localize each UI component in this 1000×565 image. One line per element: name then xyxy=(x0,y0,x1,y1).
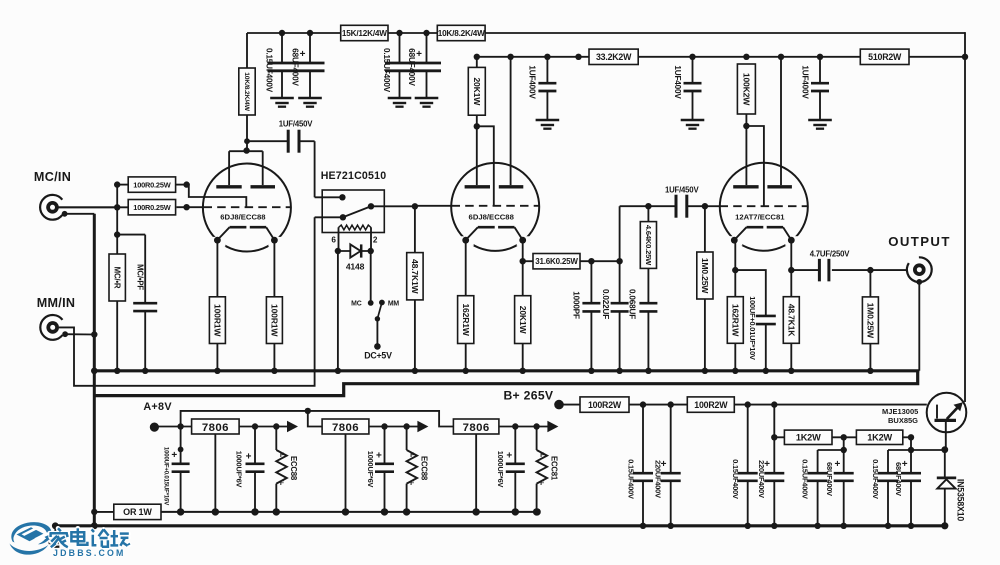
svg-text:100UF+0.01UF*10V: 100UF+0.01UF*10V xyxy=(748,296,757,360)
svg-text:IN5358X10: IN5358X10 xyxy=(956,479,966,522)
svg-text:20K1W: 20K1W xyxy=(472,77,482,106)
svg-text:MC/IN: MC/IN xyxy=(34,170,71,184)
svg-text:68UF400V: 68UF400V xyxy=(407,48,416,86)
svg-text:0.15UF400V: 0.15UF400V xyxy=(731,459,740,499)
svg-text:15K/12K/4W: 15K/12K/4W xyxy=(342,29,387,38)
svg-text:JDBBS.COM: JDBBS.COM xyxy=(53,548,126,558)
svg-text:0.15UF400V: 0.15UF400V xyxy=(626,459,635,499)
svg-text:0.15UF400V: 0.15UF400V xyxy=(801,459,810,499)
svg-text:ECC81: ECC81 xyxy=(550,456,559,481)
svg-text:6DJ8/ECC88: 6DJ8/ECC88 xyxy=(469,213,515,222)
svg-text:0.022UF: 0.022UF xyxy=(601,289,610,319)
svg-text:100R1W: 100R1W xyxy=(270,304,280,337)
svg-text:+: + xyxy=(834,459,840,470)
svg-text:0.15UF400V: 0.15UF400V xyxy=(871,459,880,499)
svg-text:+: + xyxy=(661,459,667,470)
svg-text:F: F xyxy=(540,452,544,459)
svg-text:MC/•PF: MC/•PF xyxy=(136,264,145,290)
svg-text:6DJ8/ECC88: 6DJ8/ECC88 xyxy=(220,213,266,222)
svg-text:10K/8.2K/4W: 10K/8.2K/4W xyxy=(243,72,250,111)
svg-text:1K2W: 1K2W xyxy=(796,433,821,443)
svg-text:F: F xyxy=(540,480,544,487)
svg-text:+: + xyxy=(764,459,770,470)
svg-text:162R1W: 162R1W xyxy=(461,303,471,336)
svg-text:HE721C0510: HE721C0510 xyxy=(321,170,387,182)
svg-text:1K2W: 1K2W xyxy=(867,433,892,443)
svg-text:100K2W: 100K2W xyxy=(742,73,752,106)
svg-text:1000UF*6V: 1000UF*6V xyxy=(496,451,505,488)
svg-text:1UF400V: 1UF400V xyxy=(673,65,682,99)
svg-text:31.6K0.25W: 31.6K0.25W xyxy=(535,257,578,266)
svg-text:+: + xyxy=(506,450,512,461)
svg-text:12AT7/ECC81: 12AT7/ECC81 xyxy=(735,213,785,222)
svg-text:510R2W: 510R2W xyxy=(868,52,902,62)
svg-text:4148: 4148 xyxy=(346,262,365,272)
svg-text:1UF/450V: 1UF/450V xyxy=(279,120,314,129)
svg-text:100R0.25W: 100R0.25W xyxy=(133,203,170,212)
svg-text:0.068UF: 0.068UF xyxy=(627,289,636,319)
svg-text:6: 6 xyxy=(331,236,336,245)
svg-text:MM: MM xyxy=(388,301,400,308)
svg-text:10K/8.2K/4W: 10K/8.2K/4W xyxy=(438,29,485,38)
svg-text:OUTPUT: OUTPUT xyxy=(888,234,951,249)
svg-text:68UF400V: 68UF400V xyxy=(291,48,300,86)
svg-text:33.2K2W: 33.2K2W xyxy=(596,52,632,62)
svg-text:+: + xyxy=(300,49,306,60)
svg-text:100R0.25W: 100R0.25W xyxy=(133,180,170,189)
svg-text:F: F xyxy=(280,452,284,459)
svg-text:MJE13005: MJE13005 xyxy=(882,407,918,416)
svg-text:MM/IN: MM/IN xyxy=(37,296,76,310)
svg-text:1M0.25W: 1M0.25W xyxy=(866,303,876,339)
svg-text:+: + xyxy=(902,459,908,470)
svg-text:0.15UF400V: 0.15UF400V xyxy=(264,48,273,93)
svg-text:100R2W: 100R2W xyxy=(694,400,728,410)
svg-text:68UF400V: 68UF400V xyxy=(825,462,834,496)
svg-text:+: + xyxy=(416,49,422,60)
svg-text:1UF400V: 1UF400V xyxy=(528,65,537,99)
svg-text:4.7UF/250V: 4.7UF/250V xyxy=(810,249,851,258)
svg-text:1UF/450V: 1UF/450V xyxy=(665,186,700,195)
svg-text:7806: 7806 xyxy=(332,422,359,434)
svg-text:BUX85G: BUX85G xyxy=(888,416,918,425)
svg-text:1000PF: 1000PF xyxy=(572,291,581,319)
svg-text:MC/•R: MC/•R xyxy=(113,267,122,289)
svg-text:4.64K0.25W: 4.64K0.25W xyxy=(644,225,653,266)
svg-text:DC+5V: DC+5V xyxy=(364,351,392,361)
svg-text:1000UF*6V: 1000UF*6V xyxy=(366,451,375,488)
svg-text:OR 1W: OR 1W xyxy=(123,507,152,517)
svg-text:F: F xyxy=(280,480,284,487)
svg-text:MC: MC xyxy=(351,301,362,308)
svg-text:ECC88: ECC88 xyxy=(289,456,298,481)
svg-text:1M0.25W: 1M0.25W xyxy=(700,258,710,294)
svg-text:1000UF+0.015UF*16V: 1000UF+0.015UF*16V xyxy=(162,447,169,506)
svg-text:+: + xyxy=(171,450,177,461)
svg-text:20K1W: 20K1W xyxy=(518,306,528,335)
svg-text:ECC88: ECC88 xyxy=(420,456,429,481)
svg-text:F: F xyxy=(410,480,414,487)
svg-text:A+8V: A+8V xyxy=(143,401,172,413)
svg-text:100R2W: 100R2W xyxy=(588,400,622,410)
svg-text:0.15UF400V: 0.15UF400V xyxy=(382,48,391,93)
svg-text:162R1W: 162R1W xyxy=(730,304,740,337)
svg-text:+: + xyxy=(246,452,252,463)
svg-text:1UF400V: 1UF400V xyxy=(800,65,809,99)
svg-text:1000UF*6V: 1000UF*6V xyxy=(235,451,244,488)
svg-text:+: + xyxy=(376,450,382,461)
svg-text:48.7K1W: 48.7K1W xyxy=(410,259,420,295)
svg-text:2: 2 xyxy=(373,236,378,245)
svg-text:48.7K1K: 48.7K1K xyxy=(786,304,796,338)
svg-text:B+ 265V: B+ 265V xyxy=(503,388,553,402)
svg-text:100R1W: 100R1W xyxy=(213,304,223,337)
svg-text:7806: 7806 xyxy=(463,422,490,434)
svg-text:F: F xyxy=(410,452,414,459)
svg-text:7806: 7806 xyxy=(202,422,229,434)
